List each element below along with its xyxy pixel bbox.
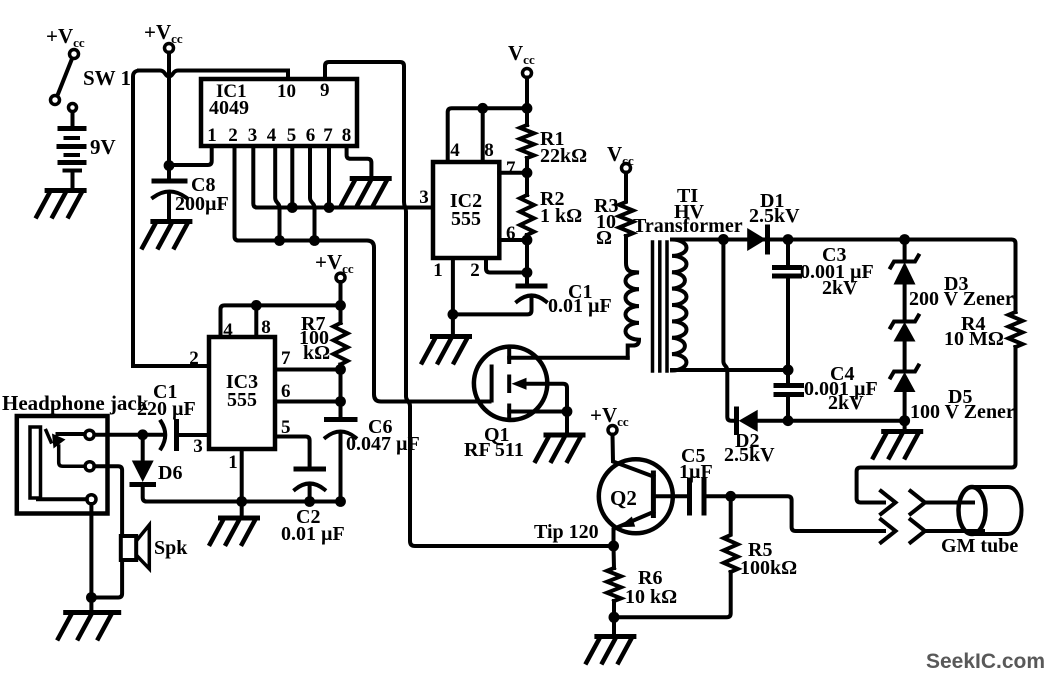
node rail/zener chain top	[899, 234, 910, 245]
wire R1 bottom to R2 top	[525, 158, 529, 195]
switch SW1	[51, 60, 132, 105]
svg-text:+Vcc: +Vcc	[46, 24, 85, 50]
op-amp / IC3 555 timer box	[189, 317, 291, 473]
node line A / pin5	[287, 202, 298, 213]
node pin8 tee (IC3)	[251, 300, 262, 311]
node secondary bottom/C3/C4	[783, 365, 794, 376]
svg-text:D6: D6	[158, 462, 182, 484]
svg-text:SeekIC.com: SeekIC.com	[926, 650, 1045, 673]
resistor R3 10 ohm	[594, 173, 633, 250]
node pin7/R7	[335, 364, 346, 375]
node R1/R2/pin7	[522, 167, 533, 178]
svg-text:100kΩ: 100kΩ	[740, 557, 797, 579]
node line B / pin4	[274, 235, 285, 246]
ground (zener chain)	[873, 432, 923, 458]
node sleeve/speaker/ground	[86, 592, 97, 603]
wire +Vcc down to R7	[339, 282, 343, 323]
capacitor C5 1uF	[679, 445, 713, 513]
wire IC1 pin1 to +Vcc/C8 junction	[169, 146, 212, 165]
svg-text:2.5kV: 2.5kV	[724, 444, 775, 466]
ground (R6)	[586, 637, 636, 663]
svg-text:10 kΩ: 10 kΩ	[625, 586, 677, 608]
svg-text:4049: 4049	[209, 97, 249, 119]
wire HV negative branch (rail node down to D2, crossing bottom line)	[723, 240, 736, 421]
wire R5 bottom to R6 bottom	[614, 572, 731, 617]
svg-text:3: 3	[193, 436, 203, 457]
svg-text:0.01 µF: 0.01 µF	[548, 295, 612, 317]
wire Q2 base to C5	[653, 494, 687, 498]
node pin8 tee	[477, 103, 488, 114]
wire IC3 pins 4,8 to +Vcc line	[221, 305, 341, 337]
wire secondary bottom to C3/C4 junction	[672, 368, 788, 372]
node pin1/C1 rail	[448, 309, 459, 320]
wire jack tip to C1 left plate	[94, 433, 164, 437]
wire line A (IC1 pins 3,5,7 to IC2 pin3)	[257, 206, 433, 210]
resistor R7 100k	[299, 313, 348, 365]
svg-text:100 V Zener: 100 V Zener	[910, 401, 1015, 423]
node jack/C1/D6	[137, 429, 148, 440]
node +Vcc/pins4-8 line	[335, 300, 346, 311]
power +Vcc terminal (IC3/R7)	[315, 250, 354, 282]
svg-text:200µF: 200µF	[175, 193, 229, 215]
svg-text:6: 6	[281, 381, 291, 402]
transistor Q2 Tip120	[534, 435, 673, 547]
node D2/C4	[783, 415, 794, 426]
ground (battery)	[37, 191, 87, 217]
resistor R4 10M	[944, 312, 1023, 350]
svg-text:5: 5	[287, 125, 297, 146]
resistor R2 1k	[520, 188, 582, 235]
wire C1 bottom to pin1 rail	[453, 297, 532, 314]
wire Q1 substrate to source node	[524, 384, 567, 412]
power Vcc terminal (IC2/R1)	[508, 41, 535, 78]
svg-text:+Vcc: +Vcc	[315, 250, 354, 276]
svg-text:6: 6	[306, 125, 316, 146]
svg-text:10: 10	[277, 81, 296, 102]
node Vcc/pin4-8 line	[522, 103, 533, 114]
svg-text:2kV: 2kV	[822, 277, 858, 299]
svg-text:2: 2	[228, 125, 238, 146]
capacitor C1 0.01uF (IC2)	[517, 281, 612, 317]
ground (IC2 pin1)	[422, 337, 472, 363]
wire R6 bottom to ground	[612, 601, 616, 636]
connector arrow (anode socket)	[911, 491, 926, 514]
wire IC1 pin2 down to line B	[235, 146, 239, 241]
svg-text:Tip 120: Tip 120	[534, 521, 599, 543]
svg-text:Vcc: Vcc	[607, 142, 634, 168]
zener diode D5 100V	[891, 366, 1015, 424]
capacitor C3 0.001uF 2kV	[775, 240, 874, 300]
capacitor C6 0.047uF	[326, 416, 420, 455]
svg-text:Headphone jack: Headphone jack	[2, 391, 149, 415]
svg-text:1µF: 1µF	[679, 461, 713, 483]
power +Vcc terminal (battery branch)	[46, 24, 85, 59]
node R6/R5 bottom	[609, 612, 620, 623]
svg-text:0.01 µF: 0.01 µF	[281, 523, 345, 545]
svg-text:6: 6	[506, 223, 516, 244]
resistor R1 22k	[520, 125, 587, 167]
headphone jack tip contact and spring arm	[46, 431, 85, 467]
headphone jack plug body	[30, 427, 41, 498]
diode D2 2.5kV	[724, 409, 775, 466]
wire Q2 emitter down to R6	[612, 546, 617, 568]
resistor R6 10k	[607, 567, 677, 608]
zener diode D4 (middle)	[891, 316, 919, 342]
svg-text:7: 7	[281, 348, 291, 369]
svg-text:22kΩ: 22kΩ	[540, 145, 587, 167]
wire C5 to R5 and down to GM tube cathode line	[704, 496, 884, 531]
wire IC2 pins 4,8 to Vcc line	[448, 108, 527, 162]
wire IC3 pin7 to R7 bottom	[275, 368, 341, 372]
wire IC1 pin6 down crossing line A to line B	[310, 146, 315, 241]
wire top horizontal (pin10 line) with crossover dip at +Vcc wire	[139, 71, 288, 80]
svg-text:2: 2	[189, 348, 199, 369]
svg-text:9: 9	[320, 80, 330, 101]
svg-text:SW 1: SW 1	[83, 66, 131, 90]
wire D4 to D5	[903, 342, 907, 372]
GM tube body	[941, 487, 1021, 557]
wire IC2 pin1 down to ground	[451, 258, 455, 335]
wire D6 cathode to ground rail	[143, 485, 147, 502]
wire +Vcc down to C8 junction	[167, 53, 171, 181]
ground (IC3 pin1)	[210, 518, 260, 544]
wire D5 to ground	[903, 392, 907, 431]
svg-text:555: 555	[227, 389, 257, 411]
svg-text:3: 3	[419, 187, 429, 208]
wire C8 to ground	[167, 194, 171, 220]
wire R7 bottom down through pin7,pin6 junctions to C6	[339, 365, 343, 419]
wire IC1 pin3 down to line A	[253, 146, 257, 208]
power +Vcc terminal (Q2)	[590, 403, 629, 435]
node rail/C6	[335, 496, 346, 507]
svg-text:9V: 9V	[90, 135, 116, 159]
svg-text:200 V Zener: 200 V Zener	[909, 288, 1014, 310]
svg-text:3: 3	[248, 125, 258, 146]
wire socket to GM tube center	[925, 501, 973, 505]
capacitor C2 0.01uF	[281, 469, 345, 545]
power Vcc terminal (R3)	[607, 142, 634, 173]
svg-text:8: 8	[342, 125, 352, 146]
svg-text:7: 7	[323, 125, 333, 146]
connector arrow (anode plug)	[881, 491, 896, 514]
ground (jack/speaker)	[58, 613, 121, 639]
node Q1 source/substrate	[562, 406, 573, 417]
wire socket to GM tube bottom	[925, 529, 983, 533]
svg-text:4: 4	[450, 140, 460, 161]
capacitor C8 200uF	[153, 174, 229, 215]
node pin6/C6	[335, 396, 346, 407]
wire left tall vertical from top line down to IC3 pin2	[133, 71, 209, 367]
transformer T1 secondary winding	[672, 240, 687, 371]
node junction +Vcc/C8/IC1 pin1	[164, 160, 175, 171]
node C5/R5	[725, 491, 736, 502]
speaker Spk	[121, 525, 188, 569]
wire jack middle contact to speaker	[91, 466, 122, 597]
wire IC1 pin7 to line A	[327, 146, 331, 208]
wire C2 bottom to ground rail	[308, 485, 312, 502]
wire C6 bottom down to ground rail	[339, 433, 343, 502]
capacitor C1 220uF (coupling)	[137, 381, 196, 449]
op-amp / IC2 555 timer box	[419, 140, 516, 281]
transistor Q1 RF511 MOSFET	[464, 347, 547, 461]
node pin6/R2	[522, 235, 533, 246]
diode D6	[132, 461, 183, 485]
node rail/C3	[783, 234, 794, 245]
transformer T1 primary winding	[625, 236, 639, 358]
wire Q1 source to ground	[509, 412, 567, 434]
wire C3 bottom to secondary bottom line	[786, 276, 790, 384]
capacitor C4 0.001uF 2kV	[776, 363, 878, 414]
wire zener chain top lead	[903, 240, 907, 262]
svg-text:Vcc: Vcc	[508, 41, 535, 67]
wire IC2 pin7 to R1/R2 junction	[499, 171, 527, 175]
wire IC1 pin8 to ground	[347, 146, 372, 177]
svg-text:1: 1	[228, 452, 238, 473]
wire Vcc down to R1 top	[525, 78, 529, 126]
svg-text:8: 8	[261, 317, 271, 338]
ground (IC1 pin8)	[342, 179, 392, 205]
svg-text:1: 1	[433, 260, 443, 281]
wire jack sleeve line to plug bottom	[38, 497, 87, 501]
wire D6 anode up to node	[141, 435, 145, 461]
node pin2/C1	[522, 267, 533, 278]
transformer labels	[633, 185, 743, 237]
node line A / pin7	[324, 202, 335, 213]
svg-text:1: 1	[207, 125, 217, 146]
connector arrow (cathode plug)	[881, 520, 896, 543]
transformer T1 core	[653, 242, 668, 371]
wire IC1 pin4 down crossing line A to line B	[275, 146, 279, 241]
power +Vcc terminal (C8 / IC1 branch)	[144, 20, 183, 53]
svg-text:4: 4	[223, 320, 233, 341]
wire battery to ground	[71, 171, 75, 190]
svg-text:+Vcc: +Vcc	[144, 20, 183, 46]
wire IC3 pin5 to C2 top	[275, 437, 310, 468]
svg-text:GM tube: GM tube	[941, 535, 1018, 557]
wire IC2 pin2 over to C1 vertical	[486, 258, 527, 273]
wire IC3 pin1 down to rail	[240, 449, 244, 517]
connector arrow (cathode socket)	[911, 520, 926, 543]
svg-text:kΩ: kΩ	[303, 342, 330, 364]
svg-text:2: 2	[470, 260, 480, 281]
zener diode D3 200V	[891, 256, 1014, 311]
wire R4 bottom down and left to GM tube anode connector	[857, 347, 1016, 503]
ground (C8)	[142, 222, 192, 248]
svg-text:555: 555	[451, 208, 481, 230]
wire C1 right plate to IC3 pin3	[177, 433, 210, 437]
node rail/C2	[304, 496, 315, 507]
wire IC1 pin5 to line A	[290, 146, 294, 208]
battery B1 9V	[59, 104, 116, 171]
diode D1 2.5kV	[747, 190, 800, 252]
ground (Q1 source)	[536, 435, 586, 461]
svg-text:7: 7	[506, 158, 516, 179]
wire D2 anode line to zener chain bottom	[758, 419, 905, 423]
headphone jack contact circles	[85, 430, 94, 439]
svg-text:1 kΩ: 1 kΩ	[540, 205, 582, 227]
node secondary top / D2 branch	[718, 234, 729, 245]
svg-text:+Vcc: +Vcc	[590, 403, 629, 429]
svg-text:8: 8	[484, 140, 494, 161]
wire C4 bottom to D2 line	[786, 395, 790, 421]
wire line B (IC1 pins 2,4,6 down to Q1 gate line)	[239, 241, 490, 402]
headphone jack outline	[2, 391, 149, 514]
wire R2 bottom down to C1 top	[525, 235, 529, 285]
node Q2 emitter junction	[608, 541, 619, 552]
wire HV rail (secondary top across D1 to right side)	[672, 240, 1016, 313]
svg-text:0.047 µF: 0.047 µF	[346, 433, 420, 455]
wire D3 to D4	[903, 285, 907, 322]
wire jack sleeve down to ground junction	[89, 504, 93, 612]
svg-text:10 MΩ: 10 MΩ	[944, 328, 1004, 350]
svg-text:Q2: Q2	[610, 486, 637, 510]
wire IC3 pin6 to C6 top	[275, 400, 341, 404]
svg-text:2kV: 2kV	[828, 392, 864, 414]
svg-text:Spk: Spk	[154, 537, 188, 559]
wire IC2 pin6 to R2 bottom	[499, 238, 527, 242]
wire IC1 pin9 up over and down long vertical to Q2 emitter junction	[325, 62, 614, 546]
svg-text:RF 511: RF 511	[464, 439, 524, 461]
node line B / pin6	[309, 235, 320, 246]
op-amp / IC1 4049 hex buffer box	[201, 79, 357, 146]
node rail/pin1	[236, 496, 247, 507]
svg-text:2.5kV: 2.5kV	[749, 205, 800, 227]
svg-text:4: 4	[267, 125, 277, 146]
wire ground rail (D6 to C6)	[147, 500, 341, 504]
node zener bottom/D2 line	[899, 415, 910, 426]
svg-text:Ω: Ω	[596, 227, 612, 249]
resistor R5 100k	[724, 496, 797, 579]
svg-text:Transformer: Transformer	[633, 215, 743, 237]
wire Q1 drain to transformer primary	[509, 356, 628, 360]
